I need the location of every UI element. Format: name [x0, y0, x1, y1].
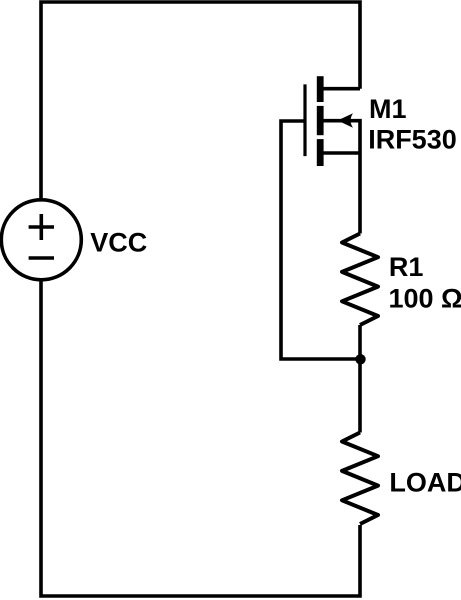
svg-text:M1: M1 [369, 94, 407, 124]
svg-text:LOAD: LOAD [389, 467, 461, 497]
svg-text:VCC: VCC [90, 227, 147, 257]
svg-text:100 Ω: 100 Ω [389, 284, 461, 314]
svg-text:R1: R1 [389, 252, 424, 282]
svg-text:IRF530: IRF530 [368, 125, 457, 155]
